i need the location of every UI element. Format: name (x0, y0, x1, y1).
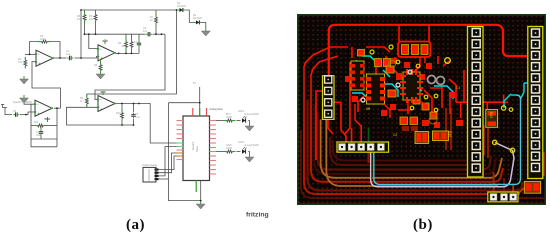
svg-text:R11: R11 (34, 121, 39, 124)
capacitor C7 100nF (39, 130, 43, 136)
dark red traces (369, 108, 489, 163)
microphone input connector (5, 108, 12, 115)
wire (40, 126, 42, 130)
wire (115, 52, 139, 54)
svg-text:100k: 100k (40, 38, 46, 41)
wire (159, 147, 177, 176)
schematic panel (a) (0, 0, 290, 237)
silkscreen circles (389, 61, 438, 125)
stage3 opamp (24, 102, 35, 105)
green trace stub (371, 152, 373, 179)
resistor R8 (99, 62, 102, 74)
ground (20, 95, 29, 103)
wire (84, 23, 86, 35)
header J4 (column B) (528, 27, 543, 179)
wire (56, 108, 58, 147)
resistor R10 (121, 110, 124, 122)
chip U6 footprint (351, 61, 365, 90)
wire (100, 71, 102, 73)
junction (125, 53, 127, 55)
wire (45, 125, 58, 127)
via (410, 106, 414, 110)
wire (169, 103, 201, 201)
svg-text:220R: 220R (226, 116, 232, 119)
via (509, 108, 513, 112)
resistor R12 BLU 220R (223, 119, 236, 122)
svg-text:10k: 10k (18, 61, 23, 64)
led wires (216, 120, 224, 122)
wire (159, 178, 169, 180)
capacitor C1 (67, 56, 73, 60)
op-amp U2 (97, 45, 116, 61)
nested bus traces (299, 66, 545, 203)
bus trace 9 (330, 137, 478, 165)
svg-text:3.3n: 3.3n (135, 116, 140, 119)
svg-text:C6: C6 (13, 110, 17, 113)
junction (80, 57, 82, 59)
svg-text:Nano: Nano (196, 146, 199, 152)
bus trace 8 (orange) (326, 119, 498, 186)
resistor R1 (24, 57, 27, 69)
bus trace 7 (orange) (321, 119, 502, 177)
stage4 (67, 107, 135, 125)
via (428, 76, 436, 84)
wire (138, 47, 140, 53)
wire (47, 117, 49, 119)
wire (95, 23, 97, 35)
LED LED2 (242, 147, 246, 154)
wire (248, 121, 249, 125)
op-amp U3 (34, 100, 53, 116)
via (408, 70, 412, 74)
right edge trace (543, 152, 545, 176)
svg-text:R10: R10 (116, 112, 121, 115)
via (424, 95, 428, 99)
wire (40, 136, 42, 140)
smd component R14 (524, 181, 540, 193)
op1 + to op3 out (32, 62, 60, 109)
red signal traces (304, 25, 508, 160)
trace to R14 (516, 185, 528, 195)
bus trace 10 (333, 140, 474, 161)
resistor R5 (125, 39, 128, 51)
capacitor C4 (146, 32, 152, 36)
resistor R6 (130, 39, 133, 51)
wire (155, 25, 157, 34)
svg-text:OLED display: OLED display (142, 164, 158, 167)
svg-text:C4: C4 (456, 87, 460, 91)
ground (196, 201, 205, 209)
chip U5 footprint (366, 74, 385, 104)
wire (31, 126, 57, 147)
svg-text:1uF: 1uF (66, 53, 71, 56)
svg-text:1N4148: 1N4148 (193, 17, 202, 20)
trace to J5 pin 2 (503, 178, 505, 192)
wire (248, 152, 249, 156)
LED LED1 (242, 116, 246, 123)
wire (131, 50, 133, 54)
wire (75, 56, 99, 58)
svg-text:8M: 8M (366, 108, 370, 112)
capacitor C6 (mic coupling) (13, 112, 19, 116)
junction (155, 33, 157, 35)
wire (31, 125, 36, 127)
wire (155, 10, 157, 15)
wire (159, 153, 177, 173)
trace to J5 pin 1 (493, 172, 495, 192)
via (437, 77, 445, 85)
junction (88, 33, 90, 35)
bus trace 6 (318, 112, 492, 170)
wire (30, 104, 32, 125)
svg-text:D10: D10 (447, 131, 451, 137)
svg-text:5V: 5V (104, 39, 107, 42)
smd component R10 (486, 110, 498, 128)
wire (125, 50, 127, 54)
white trace (371, 143, 514, 187)
bottom edge trace (299, 202, 545, 204)
via (389, 45, 393, 49)
via (370, 50, 374, 54)
bus trace 3 (308, 100, 523, 191)
svg-text:1N4148: 1N4148 (177, 5, 186, 8)
svg-text:Analog Nano: Analog Nano (210, 108, 224, 111)
via (501, 106, 505, 110)
svg-text:fritzing: fritzing (246, 212, 269, 219)
resistor R9 (85, 95, 88, 107)
to IC / analog (169, 103, 200, 116)
value labels (13, 2, 259, 167)
junction (29, 54, 31, 56)
PCB panel (b) placeholder (297, 14, 546, 205)
cyan traces (352, 56, 530, 108)
diode D1 1N4148 (177, 8, 186, 12)
wire (84, 10, 86, 12)
svg-text:1k: 1k (150, 19, 153, 22)
junction (176, 9, 178, 11)
via (434, 94, 438, 98)
power flag 5V (op-amp U2) (102, 41, 107, 44)
ground (201, 28, 210, 36)
op2 (89, 34, 98, 48)
wire (131, 34, 133, 39)
resistor R2 (op-amp U1 feedback) (38, 40, 51, 43)
wire (133, 104, 135, 113)
via (510, 148, 514, 152)
smd components D10 area (415, 131, 449, 144)
junction (138, 103, 140, 105)
via (361, 98, 365, 102)
svg-text:5V: 5V (193, 82, 196, 85)
chip U7 footprint (400, 69, 423, 103)
resistor R7 (155, 14, 158, 26)
ground (245, 154, 254, 162)
bus trace 1 (301, 130, 545, 198)
via (493, 140, 497, 144)
svg-text:5V: 5V (44, 118, 47, 121)
svg-text:1k: 1k (80, 100, 83, 103)
wire (3, 105, 8, 108)
bus trace 4 (311, 74, 503, 182)
resistor R11 (op-amp U3 feedback) (34, 124, 47, 127)
IC U5 Arduino Nano (177, 108, 217, 192)
junction (84, 33, 86, 35)
wire (49, 42, 61, 58)
diodes chain (177, 9, 179, 11)
silkscreen labels (366, 87, 492, 138)
wire (115, 104, 177, 144)
wire (80, 10, 82, 58)
component group outline (398, 42, 431, 58)
diode D2 1N4148 (194, 20, 203, 24)
wire (237, 151, 241, 153)
junction (199, 102, 201, 104)
wire (86, 105, 88, 107)
wire (20, 112, 35, 115)
wire (200, 181, 202, 203)
ground (245, 123, 254, 131)
wire (121, 121, 123, 126)
svg-text:10k: 10k (89, 18, 94, 21)
wire (237, 120, 241, 122)
ground (96, 71, 105, 79)
mid rail with cap (85, 33, 146, 35)
resistor R3 (83, 12, 86, 24)
via (396, 60, 400, 64)
junction (133, 124, 135, 126)
svg-text:100n: 100n (36, 134, 42, 137)
svg-text:5V: 5V (102, 91, 105, 94)
junction (121, 103, 123, 105)
header J5 (3-pin) (488, 192, 518, 202)
wire (186, 10, 195, 22)
header J3 (column A) (468, 27, 484, 178)
svg-text:SparkFun MEMS: SparkFun MEMS (13, 101, 32, 104)
smd pads (dark) (402, 126, 418, 131)
via (416, 64, 420, 68)
power trace loop (329, 25, 530, 79)
svg-text:Arduino: Arduino (192, 141, 195, 150)
power flag 5V (op-amp U3) (45, 119, 50, 122)
junction (56, 107, 58, 109)
header J2 (5-pin) (337, 142, 389, 152)
op-amp U4 (97, 96, 116, 112)
oled wires (159, 156, 177, 170)
via (445, 58, 451, 64)
power flag 5V (op-amp U4) (100, 92, 105, 95)
PCB board body (297, 14, 546, 205)
wire (53, 57, 67, 59)
long verticals (95, 34, 165, 99)
op-amp U1 (35, 50, 54, 66)
board outline (298, 15, 545, 204)
wire (100, 61, 102, 63)
wire (121, 104, 123, 111)
svg-text:R10: R10 (488, 112, 492, 118)
green trace (368, 128, 370, 142)
svg-text:C2: C2 (393, 134, 397, 138)
vias (361, 45, 515, 153)
trace to J5 pin 3 (512, 184, 514, 192)
via (434, 108, 438, 112)
svg-text:(4-lead RGB): (4-lead RGB) (244, 144, 259, 147)
wire (138, 34, 140, 41)
ground (20, 76, 29, 84)
capacitor C3 (137, 41, 141, 47)
wire (87, 10, 177, 96)
top rail (81, 9, 177, 11)
wire (95, 10, 97, 12)
header J1 (4-pin) (323, 76, 335, 120)
wire (199, 87, 201, 103)
wire (153, 33, 166, 35)
via (396, 83, 400, 87)
wire (54, 107, 60, 109)
wire (31, 138, 57, 140)
svg-text:1uF: 1uF (143, 30, 148, 33)
wire (202, 22, 206, 28)
wires stage1 (25, 53, 36, 55)
wire (216, 151, 224, 153)
svg-text:220R: 220R (226, 147, 232, 150)
wire (30, 42, 41, 55)
svg-text:(4-lead RGB): (4-lead RGB) (244, 113, 259, 116)
svg-text:R8: R8 (94, 64, 98, 67)
connector J6 OLED display (143, 167, 159, 182)
wire (125, 34, 127, 39)
resistor R4 (94, 12, 97, 24)
bus trace 5 (315, 105, 497, 174)
resistor R13 GRN 220R (223, 150, 236, 153)
capacitor C5 3.3nF (131, 113, 135, 119)
wire (133, 119, 135, 125)
long cyan trace (374, 95, 521, 184)
smd pads scatter (345, 58, 463, 128)
bus trace 2 (304, 66, 520, 194)
